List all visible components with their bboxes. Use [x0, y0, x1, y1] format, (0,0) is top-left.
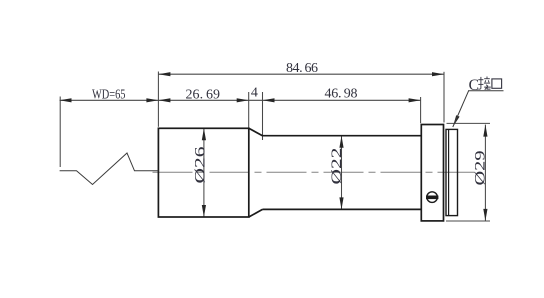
svg-text:Ø26: Ø26 — [192, 146, 208, 184]
svg-text:26. 69: 26. 69 — [186, 87, 221, 102]
svg-text:4: 4 — [251, 85, 258, 100]
svg-text:84. 66: 84. 66 — [286, 61, 318, 76]
svg-text:Ø22: Ø22 — [329, 148, 345, 185]
svg-text:WD=65: WD=65 — [92, 87, 126, 102]
svg-text:C: C — [469, 77, 479, 94]
svg-text:46. 98: 46. 98 — [325, 87, 358, 102]
svg-text:Ø29: Ø29 — [473, 151, 489, 186]
